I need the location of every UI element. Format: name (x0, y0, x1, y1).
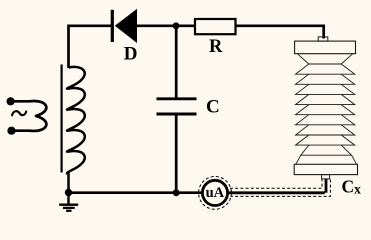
svg-text:uA: uA (206, 185, 225, 201)
svg-text:C: C (206, 97, 220, 118)
bushing Cx shed 2 (296, 74, 355, 84)
bushing Cx lower waist (296, 145, 357, 164)
bushing Cx shed 7 (296, 125, 355, 135)
capacitor C top plate (157, 97, 197, 100)
resistor R body (195, 19, 236, 34)
wire: junction A to resistor R (176, 24, 194, 27)
bushing Cx upper waist (297, 54, 353, 64)
wire: bottom bus from ground junction to microammeter (69, 191, 203, 194)
bushing Cx top flange cap (295, 41, 356, 54)
transformer T secondary winding (67, 67, 85, 193)
wire: diode cathode to junction A (136, 24, 176, 27)
terminal node dot upper (7, 97, 15, 105)
microammeter shield (dashed circle) (199, 177, 232, 210)
ground junction dot (65, 189, 72, 196)
bushing Cx shed 5 (296, 105, 355, 115)
wire: resistor R to bushing top (236, 25, 324, 39)
wire: junction A down to capacitor C (175, 26, 178, 98)
wire: top from transformer to diode anode bar (69, 26, 113, 68)
bushing Cx shed 6 (296, 115, 355, 125)
capacitor C bottom plate (157, 113, 197, 116)
bushing Cx shed 4 (296, 94, 355, 104)
bushing Cx bottom flange cap (294, 164, 357, 174)
AC source symbol ~ (12, 111, 26, 115)
diode D triangle (115, 9, 137, 43)
node A junction dot (diode/resistor/capacitor) (173, 22, 180, 29)
shielded cable dashed screen (bottom run) (231, 179, 331, 196)
wire: capacitor C down to bottom node (175, 115, 178, 193)
bottom node junction dot (173, 189, 180, 196)
bushing Cx shed 1 (296, 64, 355, 74)
shielded cable dashed screen (top run) (230, 179, 322, 188)
transformer T primary winding (11, 101, 46, 131)
transformer core (60, 65, 62, 173)
svg-text:R: R (209, 37, 223, 57)
bushing Cx top terminal connector (318, 37, 328, 41)
bushing Cx bottom terminal connector (322, 175, 330, 179)
bushing Cx shed 3 (296, 84, 355, 94)
terminal node dot lower (7, 127, 15, 135)
wire: measuring cable conductor from microammeter to Cx bottom flange (228, 179, 326, 193)
svg-text:D: D (124, 44, 138, 65)
diode D cathode bar (111, 10, 114, 42)
ground symbol (59, 193, 78, 211)
microammeter uA body (202, 180, 227, 205)
bushing Cx shed 8 (296, 135, 355, 145)
